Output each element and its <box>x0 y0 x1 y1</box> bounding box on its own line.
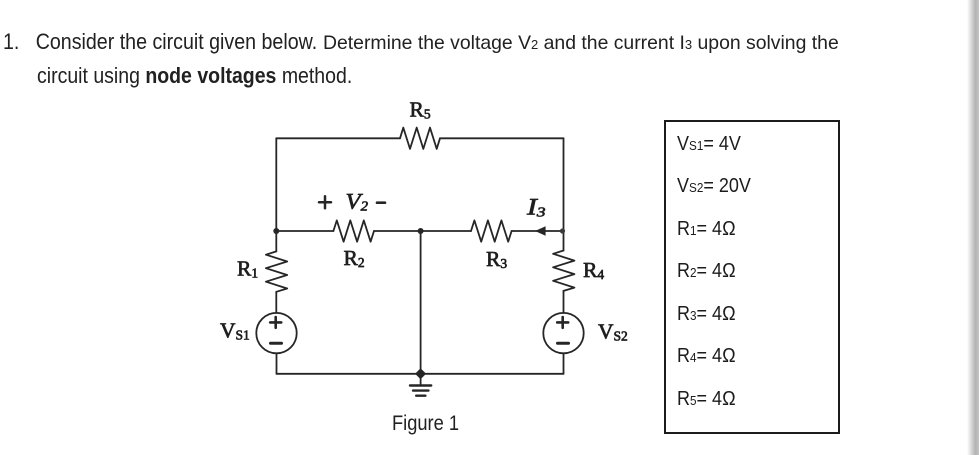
figure caption <box>392 412 459 436</box>
source Vs1 <box>256 313 296 353</box>
Vs2 plus sign <box>557 317 568 328</box>
wire: Vs2 to bottom-right corner <box>563 353 565 374</box>
node C junction dot <box>560 228 565 233</box>
svg-text:VS1: VS1 <box>220 319 250 343</box>
wire: Vs1 to bottom-left corner <box>276 353 278 374</box>
wire: bottom side <box>277 373 564 375</box>
svg-text:V2: V2 <box>346 189 369 214</box>
svg-text:VS2: VS2 <box>598 320 628 344</box>
V2 polarity minus sign <box>377 201 385 204</box>
wire: middle right (R3 to node C) with current direction <box>512 230 564 232</box>
svg-text:R3: R3 <box>486 247 507 271</box>
resistor R5 <box>400 128 440 149</box>
ground node diamond junction <box>415 368 426 379</box>
wire: top side with R5 gap <box>276 137 400 139</box>
Vs2 minus sign <box>558 342 569 345</box>
wire: R4 to Vs2 <box>563 291 565 313</box>
parameter box <box>664 120 840 434</box>
V2 polarity plus sign <box>319 196 331 208</box>
wire: top right segment <box>440 137 564 139</box>
right edge shading <box>967 0 979 455</box>
resistor R4 <box>553 251 574 291</box>
node A junction dot <box>273 228 279 234</box>
ground <box>420 374 422 386</box>
wire: R1 to Vs1 <box>275 292 277 313</box>
wire: right vertical top <box>563 138 565 250</box>
svg-text:R1: R1 <box>237 257 258 281</box>
wire: top-left vertical (node A down left side to R1) <box>275 138 277 251</box>
wire: middle left (node A to R2) <box>276 230 333 232</box>
svg-text:R2: R2 <box>344 246 365 270</box>
wire: center vertical (node B to ground node) <box>420 231 422 374</box>
resistor R1 <box>266 251 287 291</box>
problem statement line 2 <box>37 63 352 89</box>
svg-text:R5: R5 <box>410 98 431 122</box>
arrowhead I3 <box>535 226 546 236</box>
problem statement line 1 part B <box>323 32 839 55</box>
svg-text:I3: I3 <box>526 195 546 220</box>
node B junction dot <box>418 228 424 234</box>
wire: middle center (R2 to node B to R3) <box>374 230 471 232</box>
Vs1 plus sign <box>270 317 281 328</box>
resistor R3 <box>471 220 512 241</box>
resistor R2 <box>333 220 374 241</box>
svg-text:R4: R4 <box>583 258 604 282</box>
source Vs2 <box>543 313 583 353</box>
Vs1 minus sign <box>271 342 282 345</box>
problem statement line 1 part A <box>3 29 317 55</box>
